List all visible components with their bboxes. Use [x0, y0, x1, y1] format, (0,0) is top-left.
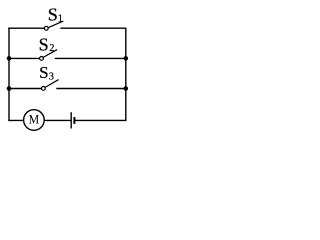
- svg-text:M: M: [29, 111, 40, 126]
- svg-text:1: 1: [58, 14, 63, 25]
- svg-text:S: S: [39, 63, 48, 82]
- svg-text:S: S: [39, 34, 49, 54]
- svg-text:2: 2: [49, 43, 54, 54]
- svg-text:S: S: [48, 5, 58, 25]
- svg-text:3: 3: [49, 72, 54, 83]
